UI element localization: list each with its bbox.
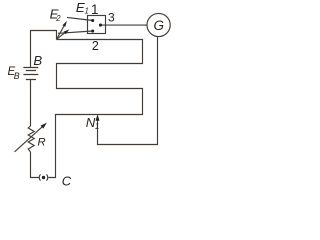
- galvanometer G circle: [147, 13, 170, 36]
- key C left arc: [39, 174, 40, 180]
- svg-text:3: 3: [108, 11, 115, 25]
- switch box: [88, 16, 106, 34]
- key C centre dot: [42, 176, 45, 179]
- contact wire into bottom-left contact: [58, 31, 93, 33]
- wire: battery bottom to rheostat R: [30, 80, 32, 127]
- svg-text:1: 1: [95, 122, 99, 131]
- wire: galvanometer down and to sliding contact N1: [98, 37, 158, 145]
- switch arm E1 shaft: [57, 33, 65, 39]
- svg-text:2: 2: [92, 39, 99, 53]
- svg-text:B: B: [33, 53, 42, 68]
- key C right arc: [47, 174, 48, 180]
- wire: slide-wire meander (bar 2 and serpentine): [48, 40, 142, 178]
- svg-text:R: R: [38, 136, 46, 148]
- svg-text:1: 1: [85, 7, 89, 16]
- contact dot (bottom-left): [91, 29, 94, 32]
- battery B plates: [23, 68, 38, 80]
- contact dot 1 (top-left): [91, 19, 94, 22]
- arrowhead of switch arm E1: [64, 29, 70, 34]
- rheostat R arrow shaft: [15, 126, 43, 152]
- arrowhead of rheostat arrow: [41, 123, 47, 129]
- wire: contact 3 to galvanometer: [101, 24, 148, 26]
- contact wire E2 into top-left contact: [67, 17, 93, 20]
- arrowhead of sliding contact N1: [96, 114, 100, 121]
- rheostat R zigzag: [28, 126, 34, 152]
- svg-text:C: C: [62, 174, 72, 189]
- svg-text:2: 2: [55, 14, 61, 23]
- wire: battery top to switch pivot: [31, 31, 57, 68]
- wire: rheostat R to key C: [31, 152, 40, 178]
- svg-text:1: 1: [91, 2, 99, 17]
- svg-text:G: G: [154, 18, 165, 33]
- contact dot 3 (right): [99, 24, 102, 27]
- svg-text:B: B: [14, 71, 20, 81]
- switch arm E2 shaft: [57, 26, 64, 39]
- arrowhead of switch arm E2: [62, 21, 67, 27]
